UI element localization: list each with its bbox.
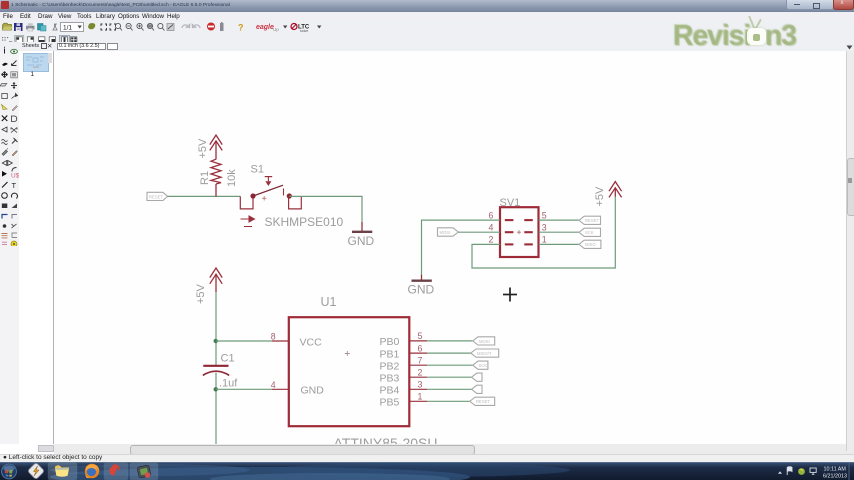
status bar: [0, 454, 854, 464]
svg-text:SCK: SCK: [585, 230, 594, 235]
svg-text:RESET: RESET: [585, 218, 599, 223]
label R1: [199, 171, 211, 185]
wire PB0: [427, 340, 473, 342]
svg-text:8: 8: [271, 332, 276, 342]
svg-text:10:11 AM: 10:11 AM: [824, 466, 847, 472]
svg-text:MISO: MISO: [585, 242, 596, 247]
label +5V (R1): [197, 138, 209, 159]
svg-text:PB2: PB2: [380, 361, 400, 373]
svg-text:5: 5: [542, 210, 547, 220]
svg-text:GND: GND: [301, 385, 325, 397]
net flag (PB3): [472, 373, 482, 381]
wire SV1 pin5: [539, 219, 579, 221]
Revision3 watermark: [673, 20, 821, 56]
wire switch to GND: [289, 196, 362, 222]
junction (VCC): [214, 339, 218, 343]
label .1uf: [219, 378, 238, 390]
wire PB2: [427, 364, 473, 366]
wire +5V rail down: [215, 292, 217, 444]
svg-text:S1: S1: [251, 164, 264, 176]
resistor R1: [211, 159, 221, 196]
svg-text:VCC: VCC: [300, 336, 323, 348]
svg-text:.1uf: .1uf: [219, 378, 238, 390]
svg-text:6: 6: [489, 210, 494, 220]
wire PB4: [427, 388, 472, 390]
label 10k: [226, 169, 238, 187]
wire SV1 pin2 to +5V: [472, 196, 615, 268]
net flag RESET (left): [147, 192, 168, 200]
svg-text:PB5: PB5: [380, 397, 400, 409]
svg-text:SKHMPSE010: SKHMPSE010: [265, 215, 344, 229]
wire PB1: [427, 352, 471, 354]
svg-text:SCK: SCK: [479, 363, 488, 368]
wire VCC: [216, 340, 272, 342]
net flag MOSI (PB0): [473, 337, 495, 345]
svg-text:4: 4: [271, 380, 276, 390]
left tool sidebar: [0, 51, 19, 444]
net flag MOSI (SV1 pin4): [438, 228, 459, 236]
capacitor C1: [203, 366, 229, 376]
svg-text:C1: C1: [221, 353, 235, 365]
net flag SCK (PB2): [473, 361, 488, 369]
wire MOSI flag to pin4: [458, 231, 500, 233]
supply +5V (R1): [210, 135, 222, 159]
label S1: [251, 164, 264, 176]
net flag (PB4): [472, 385, 482, 393]
svg-text:PB3: PB3: [380, 373, 400, 385]
net flag SCK (SV1 pin3): [579, 228, 601, 236]
mouse cursor crosshair: [503, 288, 517, 302]
svg-text:RESET: RESET: [149, 194, 163, 199]
svg-text:6/21/2013: 6/21/2013: [823, 474, 847, 480]
supply +5V (U1): [210, 268, 222, 292]
pin 2 stub (PB3): [410, 368, 428, 378]
svg-text:3: 3: [542, 222, 547, 232]
net flag RESET (PB5): [470, 397, 495, 405]
svg-text:3: 3: [418, 380, 423, 390]
pin 7 stub (PB2): [410, 356, 428, 366]
wire SV1 pin3: [539, 231, 579, 233]
svg-text:1: 1: [542, 235, 547, 245]
taskbar: [0, 462, 854, 480]
IC U1 box: [289, 295, 410, 426]
wire PB5: [427, 400, 470, 402]
pin 4 stub (GND): [271, 380, 289, 390]
svg-text:7: 7: [418, 356, 423, 366]
switch S1: [240, 177, 301, 227]
window buttons: [786, 0, 834, 10]
svg-text:+5V: +5V: [195, 283, 207, 304]
pin 5 stub (PB0): [410, 331, 428, 341]
ground GND (switch): [348, 222, 375, 248]
svg-text:GND: GND: [348, 234, 375, 248]
wire flag to switch: [168, 195, 241, 197]
label C1: [221, 353, 235, 365]
wire GND: [216, 388, 272, 390]
ground GND (SV1): [408, 275, 435, 297]
wire SV1 pin6 to GND: [422, 220, 501, 275]
net flag MISO (SV1 pin1): [579, 240, 601, 248]
svg-text:5: 5: [418, 331, 423, 341]
svg-text:MOSI: MOSI: [479, 339, 490, 344]
junction (GND): [214, 387, 218, 391]
svg-text:GND: GND: [408, 283, 435, 297]
svg-text:MISO/T: MISO/T: [477, 351, 492, 356]
label SKHMPSE010: [265, 215, 344, 229]
svg-text:2: 2: [418, 368, 423, 378]
label +5V (SV1): [594, 186, 606, 207]
label ATTINY85-20SU: [334, 435, 438, 451]
svg-text:+5V: +5V: [197, 138, 209, 159]
svg-text:1: 1: [418, 392, 423, 402]
scrollbars: [846, 51, 854, 454]
label +5V (U1): [195, 283, 207, 304]
SV1 pin numbers: [489, 210, 547, 244]
svg-text:SV1: SV1: [500, 197, 521, 209]
svg-text:PB4: PB4: [380, 385, 400, 397]
svg-text:+5V: +5V: [594, 186, 606, 207]
supply +5V (SV1): [609, 182, 622, 198]
menu bar: [0, 12, 854, 20]
net flag RESET (SV1 pin5): [579, 216, 601, 224]
connector SV1 box: [500, 197, 539, 257]
pin 8 stub (VCC): [271, 332, 289, 342]
svg-text:MOSI: MOSI: [440, 230, 451, 235]
net flag MISO (PB1): [471, 349, 499, 357]
toolbar row 1: [0, 20, 854, 33]
row 3: sheets tab + coords: [0, 42, 854, 52]
svg-text:RESET: RESET: [476, 399, 490, 404]
toolbar row 2: [0, 32, 854, 43]
svg-text:2: 2: [489, 235, 494, 245]
wire SV1 pin1: [539, 243, 579, 245]
svg-text:4: 4: [489, 222, 494, 232]
pin 1 stub (PB5): [410, 392, 428, 402]
svg-text:PB0: PB0: [380, 336, 400, 348]
title bar: [0, 0, 854, 12]
pin 3 stub (PB4): [410, 380, 428, 390]
wire PB3: [427, 376, 472, 378]
svg-text:PB1: PB1: [380, 348, 400, 360]
svg-text:6: 6: [418, 343, 423, 353]
svg-text:10k: 10k: [226, 169, 238, 187]
pin 6 stub (PB1): [410, 343, 428, 353]
canvas: [54, 51, 846, 444]
svg-text:U1: U1: [321, 295, 337, 309]
sheets panel: [19, 51, 54, 444]
SV1 pin contacts: [505, 220, 533, 244]
svg-text:R1: R1: [199, 171, 211, 185]
